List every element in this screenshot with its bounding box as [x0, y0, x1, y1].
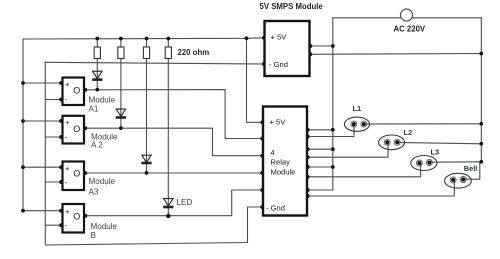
wire: relay COM1 stub — [307, 129, 333, 131]
wire: L1 return to right bus — [364, 123, 482, 125]
svg-text:+ 5V: + 5V — [271, 33, 288, 42]
pin dot: relay IN1 — [260, 136, 264, 140]
junction dot: right bus / L2 return — [479, 142, 483, 146]
wire: A1 output to relay IN1 — [85, 90, 263, 139]
svg-text:Relay: Relay — [271, 158, 291, 167]
resistor R2 220 ohm — [118, 47, 124, 59]
junction dot: right bus / SMPS out2 — [479, 52, 483, 56]
svg-text:+: + — [65, 80, 70, 89]
svg-text:Bell: Bell — [464, 164, 478, 173]
svg-text:L2: L2 — [404, 128, 413, 137]
junction dot: D3 / A3 output — [145, 171, 149, 175]
wire: B output to relay IN4 — [85, 190, 263, 216]
pin dot: relay COM4 — [306, 188, 310, 192]
junction dot: rail1 / column1 — [95, 37, 99, 41]
svg-text:220 ohm: 220 ohm — [178, 48, 210, 57]
wire: relay COM4 stub — [307, 189, 333, 191]
pin dot: SMPS -Gnd — [262, 62, 266, 66]
wire: minus bus, bottom ground run and riser to relay Gnd — [45, 62, 262, 245]
junction dot: COM bus / COM1 — [331, 128, 335, 132]
junction dot: LED / B output — [166, 214, 170, 218]
pin dot: relay NO2 — [306, 155, 310, 159]
pin dot: relay NO4 — [306, 194, 310, 198]
svg-text:A1: A1 — [89, 105, 99, 114]
SMPS module U1 box — [265, 21, 310, 76]
wire: AC 220V top loop — [333, 17, 482, 19]
pin dot: relay IN2 — [260, 154, 264, 158]
resistor R1 220 ohm — [94, 47, 100, 59]
wire: SMPS AC output 1 to AC loop — [310, 45, 333, 47]
svg-text:A 2: A 2 — [91, 141, 103, 150]
pin dot: relay NO1 — [306, 134, 310, 138]
wire: relay NO1 to lamp L1 — [307, 124, 355, 136]
svg-text:LED: LED — [177, 198, 193, 207]
diode D1 — [92, 71, 102, 79]
junction dot: rail1 / column3 — [145, 37, 149, 41]
relay module U2 box — [263, 107, 307, 216]
pin dot: SMPS AC out 1 — [308, 44, 312, 48]
wire: relay NO4 to Bell — [307, 180, 455, 196]
module A2 box — [59, 116, 87, 144]
diode D3 — [141, 155, 151, 163]
wire: A3 output to relay IN3 — [85, 172, 263, 174]
svg-text:Module: Module — [89, 177, 116, 186]
junction dot: plus bus / B corner — [21, 209, 25, 213]
junction dot: COM bus / COM2 — [331, 147, 335, 151]
junction dot: D1 / A1 output — [95, 88, 99, 92]
svg-text:O: O — [73, 169, 80, 179]
wire: ground rail to SMPS -Gnd — [45, 62, 264, 64]
pin dot: relay Gnd — [260, 205, 264, 209]
wire: Bell return to right bus — [463, 162, 481, 179]
pin dot: SMPS +5V — [262, 36, 266, 40]
resistor R4 220 ohm — [165, 47, 171, 59]
svg-text:O: O — [73, 124, 80, 134]
wire: column 3 (R3/D3 to A3 output) — [146, 39, 148, 173]
module A1 box — [59, 78, 87, 106]
svg-text:+: + — [65, 118, 70, 127]
svg-text:B: B — [91, 231, 96, 240]
svg-text:L1: L1 — [353, 104, 362, 113]
junction dot: plus bus / A3 — [21, 165, 25, 169]
wire: +5V drop to relay +5V pin — [247, 38, 263, 122]
junction dot: rail1 / column2 — [119, 37, 123, 41]
svg-text:Module: Module — [271, 168, 296, 177]
wire: A3 minus input stub — [45, 181, 60, 183]
wire: A1 minus input stub — [45, 99, 60, 101]
wire: L3 return to right bus — [429, 161, 481, 163]
svg-text:O: O — [73, 86, 80, 96]
junction dot: COM bus / COM3 — [331, 165, 335, 169]
wire: L2 return to right bus — [397, 142, 481, 143]
wire: A1 plus input stub — [23, 82, 61, 84]
wire: SMPS AC output 2 to right bus — [310, 53, 482, 56]
pin dot: relay IN4 — [260, 188, 264, 192]
svg-text:Module: Module — [89, 96, 116, 105]
pin dot: SMPS AC out 2 — [308, 52, 312, 56]
wire: relay COM2 stub — [307, 148, 333, 150]
junction dot: AC loop / SMPS out1 — [331, 44, 335, 48]
svg-text:A3: A3 — [89, 188, 99, 197]
wire: A2 output to relay IN2 — [85, 128, 263, 156]
wire: relay NO3 to lamp L3 — [307, 163, 421, 177]
wire: A2 minus input stub — [45, 136, 60, 138]
wire: relay COM3 stub — [307, 166, 333, 168]
junction dot: plus bus / A2 — [21, 119, 25, 123]
junction dot: rail1 / +5V drop — [245, 36, 249, 40]
junction dot: right bus / L3 return — [479, 160, 483, 164]
svg-text:+: + — [65, 207, 70, 216]
module A3 box — [59, 162, 87, 191]
wire: relay COM vertical bus — [332, 18, 334, 190]
wire: left plus bus — [23, 39, 61, 211]
bell lamp — [445, 173, 472, 188]
wire: A3 plus input stub — [23, 166, 61, 168]
AC source G1 — [401, 9, 413, 21]
svg-text:- Gnd: - Gnd — [266, 204, 285, 213]
pin dot: relay COM2 — [306, 147, 310, 151]
svg-text:AC 220V: AC 220V — [394, 25, 426, 34]
svg-text:+ 5V: + 5V — [270, 118, 287, 127]
junction dot: rail1 / column4 — [166, 37, 170, 41]
wire: B minus input stub — [45, 224, 60, 226]
pin dot: relay NO3 — [306, 175, 310, 179]
svg-text:Module: Module — [91, 222, 118, 231]
junction dot: D2 / A2 output — [119, 126, 123, 130]
junction dot: plus bus / A1 — [21, 81, 25, 85]
wire: column 2 (R2/D2 to A2 output) — [120, 39, 122, 129]
svg-text:4: 4 — [271, 148, 275, 157]
pin dot: relay COM3 — [306, 165, 310, 169]
diode D2 — [116, 109, 126, 117]
resistor R3 220 ohm — [143, 47, 149, 59]
wire: relay NO2 to lamp L2 — [307, 142, 389, 157]
junction dot: right bus / L1 return — [479, 122, 483, 126]
lamp L2 — [379, 135, 405, 150]
LED diode — [163, 199, 173, 207]
wire: +5V top rail — [23, 38, 265, 39]
lamp L3 — [411, 156, 437, 171]
svg-text:O: O — [73, 211, 80, 221]
svg-text:- Gnd: - Gnd — [269, 60, 288, 69]
svg-text:5V SMPS Module: 5V SMPS Module — [260, 2, 324, 11]
wire: A2 plus input stub — [23, 120, 61, 122]
svg-text:L3: L3 — [431, 148, 440, 157]
module B box — [59, 204, 87, 233]
lamp L1 — [344, 117, 369, 131]
svg-text:+: + — [65, 164, 70, 173]
wire: right AC bus — [480, 18, 482, 162]
wire: column 4 (R4/LED to B output) — [167, 39, 169, 216]
pin dot: relay IN3 — [260, 171, 264, 175]
pin dot: relay +5V — [260, 120, 264, 124]
wire: column 1 (R1/D1 to A1 output) — [96, 39, 98, 90]
pin dot: relay COM1 — [306, 128, 310, 132]
